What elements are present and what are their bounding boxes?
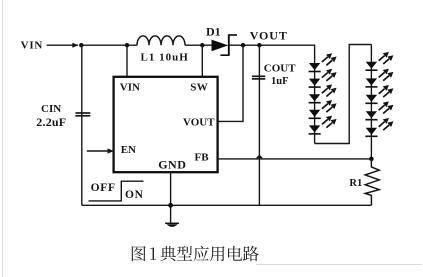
wire bottom ground rail [82, 204, 372, 206]
junction dot FB R1 node [369, 157, 374, 162]
wire VIN pin leg [126, 45, 128, 77]
LED string 2 column wire [370, 45, 372, 159]
LED D9 [365, 85, 393, 103]
svg-text:CIN: CIN [41, 103, 61, 115]
capacitor CIN [75, 113, 90, 116]
wire top rail VIN to inductor [81, 44, 137, 46]
label CIN value [36, 103, 66, 129]
inductor L1 [137, 36, 185, 45]
svg-text:VOUT: VOUT [183, 116, 215, 128]
scan edge artifact bottom right [256, 264, 421, 266]
svg-text:1uF: 1uF [271, 76, 289, 87]
wire GND pin leg [170, 172, 172, 223]
LED D2 [309, 53, 337, 71]
LED D6 [309, 116, 337, 134]
LED D5 [309, 100, 337, 118]
LED D4 [309, 84, 337, 102]
svg-text:FB: FB [195, 151, 210, 163]
LED D7 [365, 52, 393, 70]
svg-text:EN: EN [121, 144, 136, 156]
IC U1 body [114, 77, 218, 172]
svg-text:COUT: COUT [264, 62, 296, 74]
wire COUT leg with hop over FB [258, 45, 260, 205]
arrowhead EN [108, 148, 115, 153]
switch waveform OFF-ON step [89, 181, 144, 201]
svg-text:SW: SW [190, 82, 208, 94]
svg-text:2.2uF: 2.2uF [36, 115, 66, 129]
wire SW pin leg [201, 45, 203, 77]
svg-text:D1: D1 [206, 24, 221, 38]
junction dot COUT node [257, 43, 261, 47]
LED D10 [365, 101, 393, 119]
scan edge artifact left [2, 0, 4, 277]
LED D11 [365, 118, 393, 136]
svg-text:GND: GND [158, 157, 186, 171]
label COUT value [264, 62, 296, 87]
diode D1 schottky [212, 34, 238, 56]
svg-text:ON: ON [125, 189, 144, 201]
wire LED string 1 top leg [314, 45, 316, 64]
junction dot VOUT pin node [241, 43, 245, 47]
junction dot VIN node [79, 43, 83, 47]
svg-text:VIN: VIN [120, 82, 140, 94]
caption 图1 典型应用电路 [132, 246, 259, 262]
wire VIN input [47, 44, 78, 46]
wire diode to VOUT node [229, 44, 315, 46]
junction dot GND rail [168, 203, 173, 208]
LED D8 [365, 69, 393, 87]
wire VOUT pin leg [218, 45, 244, 121]
wire FB net [218, 158, 372, 160]
arrow on VIN wire [72, 43, 78, 48]
svg-text:L1 10uH: L1 10uH [141, 51, 189, 63]
svg-text:VOUT: VOUT [250, 29, 288, 43]
junction dot inductor left [125, 43, 129, 47]
junction dot SW node [200, 43, 204, 47]
LED string 1 column wire [314, 63, 316, 144]
capacitor COUT [252, 76, 265, 79]
svg-text:OFF: OFF [91, 182, 116, 194]
wire CIN leg vertical [81, 45, 83, 205]
resistor R1 [365, 159, 379, 205]
svg-text:VIN: VIN [21, 40, 44, 52]
wire inductor to diode [185, 44, 212, 46]
wire string1 bottom to string2 top riser [315, 45, 372, 144]
wire EN arrow [87, 150, 109, 152]
ground symbol [165, 223, 179, 227]
svg-text:R1: R1 [349, 178, 362, 189]
LED D3 [309, 69, 337, 87]
